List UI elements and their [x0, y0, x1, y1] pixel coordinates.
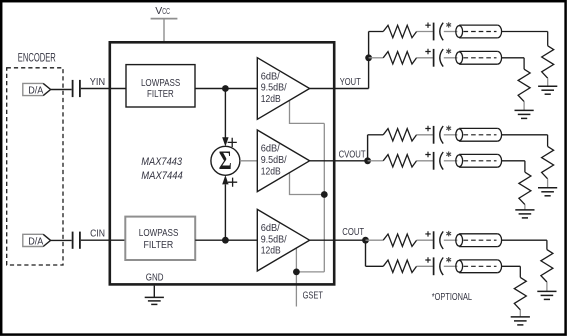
wire CV1 resistor to capacitor (gray lead)	[417, 134, 433, 136]
wire C2 load drop	[519, 266, 521, 277]
coax cable Y1	[456, 26, 463, 38]
svg-text:9.5dB/: 9.5dB/	[261, 155, 287, 166]
wire luma node down to summer	[224, 89, 226, 139]
junction CVOUT branch	[364, 157, 371, 164]
junction COUT branch	[362, 237, 369, 244]
wire summer to amp2 (gray)	[240, 160, 257, 162]
power VCC label	[155, 5, 170, 17]
svg-text:9.5dB/: 9.5dB/	[261, 83, 287, 94]
svg-text:6dB/: 6dB/	[261, 71, 280, 82]
wire CV2 cable to load corner	[502, 160, 525, 162]
wire YIN capacitor to chip pin	[81, 88, 126, 90]
svg-text:GSET: GSET	[303, 289, 324, 301]
svg-text:6dB/: 6dB/	[261, 223, 280, 234]
optional-mark asterisk for C1 capacitor	[446, 231, 451, 236]
capacitor YIN coupling	[73, 80, 80, 97]
wire C1 resistor to capacitor (gray lead)	[417, 239, 433, 241]
plus sign summer bottom input	[228, 178, 237, 187]
svg-text:CIN: CIN	[90, 228, 105, 240]
capacitor CV2 AC-coupling (polarized, + mark)	[425, 152, 430, 157]
wire Y2 load drop	[523, 58, 525, 69]
svg-text:FILTER: FILTER	[147, 88, 174, 100]
wire C2 resistor to capacitor (gray lead)	[417, 265, 433, 267]
wire CV1 load drop	[547, 135, 549, 147]
ground CV2 termination	[515, 209, 534, 211]
wire Y1 resistor to ground (gray stem)	[547, 78, 549, 86]
ground chip GND symbol	[145, 297, 164, 304]
svg-text:CC: CC	[162, 7, 170, 16]
resistor Y2 75ohm termination	[518, 69, 530, 101]
junction feedback bus / amp2	[321, 191, 328, 198]
resistor Y1 series 75ohm	[383, 25, 416, 37]
junction GSET node	[293, 269, 300, 276]
resistor C2 series 75ohm	[383, 260, 416, 272]
wire GSET line from amp3 down through pin	[295, 248, 297, 307]
coax cable CV2	[456, 155, 463, 167]
D/A converter (chroma)	[23, 234, 51, 247]
resistor C2 75ohm termination	[514, 277, 526, 309]
svg-text:6dB/: 6dB/	[261, 144, 280, 155]
wire C2 capacitor to cable (gray lead)	[444, 265, 458, 267]
wire COUT from amp3 out of chip	[310, 239, 366, 241]
wire Y1 cable to load corner	[502, 31, 548, 33]
svg-text:COUT: COUT	[342, 226, 364, 238]
wire C1 load drop	[546, 240, 548, 249]
svg-text:12dB: 12dB	[261, 166, 281, 177]
op-amp summer sigma	[211, 146, 240, 176]
ground C1 termination	[537, 290, 556, 292]
wire gain-set feedback bus vertical	[323, 123, 325, 272]
resistor CV2 series 75ohm	[383, 155, 416, 167]
wire C2 resistor to ground (gray stem)	[519, 310, 521, 317]
wire YOUT riser	[368, 32, 370, 89]
coax cable Y2	[456, 52, 463, 64]
wire CIN capacitor to chip pin	[81, 239, 126, 241]
svg-text:MAX7444: MAX7444	[141, 170, 183, 182]
wire CV2 load drop	[524, 161, 526, 172]
wire C1 capacitor to cable (gray lead)	[444, 239, 458, 241]
wire D/A to YIN capacitor	[51, 89, 72, 91]
resistor CV1 series 75ohm	[383, 129, 416, 141]
capacitor CIN coupling	[73, 232, 80, 249]
junction chroma node	[222, 237, 229, 244]
optional-mark asterisk for Y1 capacitor	[446, 22, 451, 27]
junction YOUT branch	[365, 54, 372, 61]
wire CV2 capacitor to cable (gray lead)	[444, 160, 458, 162]
wire Y2 lead into resistor	[369, 57, 384, 59]
resistor CV1 75ohm termination	[542, 146, 554, 178]
lowpass filter block (luma)	[126, 65, 195, 107]
resistor C1 series 75ohm	[383, 234, 416, 246]
svg-text:FILTER: FILTER	[144, 239, 174, 251]
wire C2 lead into resistor	[366, 265, 384, 267]
optional-mark asterisk for Y2 capacitor	[446, 49, 451, 54]
plus sign summer top input	[228, 138, 237, 147]
svg-text:YOUT: YOUT	[340, 76, 361, 88]
wire C1 lead into resistor	[366, 239, 384, 241]
wire CV1 resistor to ground (gray stem)	[547, 179, 549, 188]
wire Y2 cable to load corner	[502, 57, 524, 59]
wire D/A to CIN capacitor	[51, 239, 72, 241]
svg-text:12dB: 12dB	[261, 94, 281, 105]
wire Y1 load drop	[547, 32, 549, 46]
wire Y2 resistor to capacitor (gray lead)	[417, 57, 433, 59]
wire CV2 lead into resistor	[368, 160, 384, 162]
wire VCC stub into chip	[163, 19, 165, 42]
wire CVOUT from amp2 out of chip	[310, 160, 368, 162]
coax cable C1	[456, 234, 463, 246]
svg-text:9.5dB/: 9.5dB/	[261, 234, 287, 245]
svg-text:Σ: Σ	[219, 146, 232, 175]
ground Y2 termination	[515, 109, 534, 111]
wire C1 cable to load corner	[502, 239, 547, 241]
op-amp U-amp1 6dB/9.5dB/12dB output amplifier	[257, 58, 309, 120]
wire C1 resistor to ground (gray stem)	[546, 282, 548, 291]
wire gain-set feedback from amp1	[290, 101, 325, 124]
capacitor C1 AC-coupling (polarized, + mark)	[425, 231, 430, 236]
wire YOUT from amp1 out of chip	[310, 88, 369, 90]
wire C2 cable to load corner	[502, 265, 521, 267]
capacitor Y2 AC-coupling (polarized, + mark)	[425, 49, 430, 54]
D/A converter (luma)	[23, 83, 51, 96]
wire Y1 resistor to capacitor (gray lead)	[417, 31, 433, 33]
svg-text:YIN: YIN	[90, 76, 105, 88]
arrowhead into summer bottom	[222, 175, 228, 184]
encoder dashed box	[7, 68, 63, 265]
wire Y1 capacitor to cable (gray lead)	[444, 31, 458, 33]
capacitor CV1 AC-coupling (polarized, + mark)	[425, 126, 430, 131]
wire LPF1 output	[195, 88, 257, 90]
power VCC rail bar	[151, 18, 178, 20]
svg-text:CVOUT: CVOUT	[339, 148, 366, 160]
wire CV1 lead into resistor	[368, 134, 384, 136]
svg-text:LOWPASS: LOWPASS	[139, 227, 179, 239]
resistor C1 75ohm termination	[541, 250, 553, 282]
wire Y1 lead into resistor	[369, 31, 384, 33]
capacitor C2 AC-coupling (polarized, + mark)	[425, 257, 430, 262]
lowpass filter block (chroma)	[125, 217, 195, 260]
ground Y1 termination	[538, 85, 557, 87]
wire COUT dropper	[365, 240, 367, 266]
svg-text:*OPTIONAL: *OPTIONAL	[432, 291, 472, 303]
wire feedback bus bottom to GSET node	[296, 271, 324, 273]
wire Y2 capacitor to cable (gray lead)	[444, 57, 458, 59]
svg-text:MAX7443: MAX7443	[141, 156, 182, 168]
wire Y2 resistor to ground (gray stem)	[523, 102, 525, 111]
resistor CV2 75ohm termination	[519, 172, 531, 204]
resistor Y2 series 75ohm	[383, 52, 416, 64]
op-amp U-amp2 6dB/9.5dB/12dB output amplifier	[257, 130, 309, 192]
wire CV2 resistor to ground (gray stem)	[524, 205, 526, 210]
wire gain-set feedback from amp2	[290, 173, 325, 195]
resistor Y1 75ohm termination	[542, 46, 554, 78]
wire CV1 cable to load corner	[502, 134, 548, 136]
svg-text:ENCODER: ENCODER	[18, 53, 56, 65]
ground CV1 termination	[538, 187, 557, 189]
coax cable C2	[456, 260, 463, 272]
wire chroma node up to summer	[224, 185, 226, 241]
svg-text:12dB: 12dB	[261, 246, 281, 257]
svg-text:V: V	[155, 5, 162, 17]
wire CV1 capacitor to cable (gray lead)	[444, 134, 458, 136]
optional-mark asterisk for C2 capacitor	[446, 257, 451, 262]
optional-mark asterisk for CV1 capacitor	[446, 126, 451, 131]
op-amp chip outline MAX7443/MAX7444	[110, 42, 334, 284]
svg-text:D/A: D/A	[28, 236, 43, 248]
arrowhead into summer top	[222, 137, 228, 146]
optional-mark asterisk for CV2 capacitor	[446, 152, 451, 157]
svg-text:D/A: D/A	[28, 85, 43, 97]
op-amp U-amp3 6dB/9.5dB/12dB output amplifier	[257, 209, 309, 271]
junction luma node	[222, 85, 229, 92]
coax cable CV1	[456, 129, 463, 141]
wire GND stem	[153, 286, 155, 298]
svg-text:GND: GND	[146, 272, 164, 284]
wire LPF2 output	[195, 239, 257, 241]
ground C2 termination	[511, 316, 530, 318]
wire CVOUT riser	[367, 135, 369, 161]
capacitor Y1 AC-coupling (polarized, + mark)	[425, 23, 430, 28]
wire CV2 resistor to capacitor (gray lead)	[417, 160, 433, 162]
